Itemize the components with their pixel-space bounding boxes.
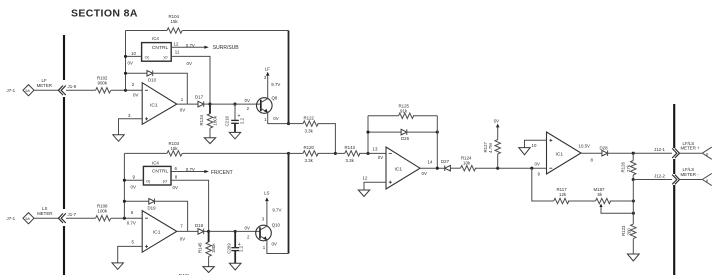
wire IC4 pin 11 drop to output node — [171, 49, 210, 104]
Q10 collector to LS net arrow — [262, 191, 282, 227]
svg-text:9.7V: 9.7V — [272, 207, 281, 212]
svg-text:O(: O( — [145, 56, 150, 60]
IC U IC4 (top half) — [142, 36, 172, 61]
wire node to C209 node — [209, 230, 236, 232]
svg-text:R123: R123 — [621, 225, 626, 236]
potentiometer M187 — [594, 187, 634, 213]
wire: riser from Q10 emitter — [288, 153, 290, 253]
capacitor C216 — [225, 104, 245, 139]
node R126 top — [632, 152, 635, 155]
connector J12-2 chevron — [654, 173, 680, 184]
svg-text:R120: R120 — [304, 145, 315, 150]
resistor R134 to ground — [199, 104, 217, 144]
output pin 8 wire — [579, 144, 602, 163]
diode D17 — [195, 94, 210, 107]
resistor R126 vertical — [621, 153, 636, 179]
svg-text:D19: D19 — [148, 206, 157, 211]
pin 10 wire + ground — [519, 140, 547, 155]
svg-text:J7-1: J7-1 — [7, 88, 16, 93]
wire chevron to R108 — [66, 217, 96, 219]
svg-text:0V: 0V — [131, 185, 136, 190]
svg-text:14: 14 — [428, 160, 433, 165]
svg-text:10: 10 — [532, 143, 537, 148]
wire diamond to chevron (bottom input) — [34, 217, 59, 219]
diode D18 — [195, 223, 209, 234]
node: pin6 feedback junction — [123, 217, 126, 220]
svg-text:0V: 0V — [272, 242, 277, 247]
capacitor C209 — [227, 231, 244, 270]
node output/R145 — [207, 230, 210, 233]
svg-text:3.3k: 3.3k — [305, 128, 314, 133]
wire IC4 pin 12 to SURR/SUB arrow — [171, 42, 239, 51]
svg-text:0V: 0V — [180, 236, 185, 241]
svg-text:J1-7: J1-7 — [68, 212, 77, 217]
svg-text:LS: LS — [264, 191, 269, 196]
svg-text:27k: 27k — [626, 164, 631, 172]
wire R108 to IC1 pin6 — [111, 217, 142, 219]
svg-text:O(: O( — [146, 179, 151, 183]
svg-text:)O: )O — [163, 179, 167, 183]
wire: riser to Q8 emitter node — [288, 31, 290, 124]
wire: feedback top horizontal — [126, 30, 168, 32]
node pin13 — [366, 152, 369, 155]
Q8 collector to LF net arrow — [264, 67, 281, 99]
svg-text:D27: D27 — [441, 159, 450, 164]
svg-text:IC1: IC1 — [150, 102, 158, 108]
svg-text:5k: 5k — [598, 192, 603, 197]
svg-text:LF: LF — [265, 67, 270, 72]
svg-text:12: 12 — [363, 176, 368, 181]
transistor Q10 — [256, 222, 281, 240]
connector J7-1 (top) — [7, 85, 35, 96]
svg-text:METER -: METER - — [681, 172, 700, 177]
node R127 junction — [496, 167, 499, 170]
diode D28 — [600, 145, 673, 156]
net label LF/LS METER - — [681, 167, 700, 177]
wire IC4 pin 8 drop to output node — [171, 174, 209, 231]
wire pin9 node down to R117 — [532, 168, 554, 201]
svg-text:0V: 0V — [378, 155, 383, 160]
wire: R103 to riser junction — [182, 152, 288, 154]
wire vertical down to R123 — [632, 180, 634, 225]
svg-text:10: 10 — [131, 51, 136, 56]
svg-text:SECTION 8A: SECTION 8A — [71, 8, 138, 20]
svg-text:10.5V: 10.5V — [579, 144, 591, 149]
svg-text:J7-1: J7-1 — [7, 216, 16, 221]
svg-text:0V: 0V — [128, 60, 133, 65]
svg-text:R122: R122 — [304, 115, 315, 120]
node emitter/riser junction — [287, 122, 290, 125]
svg-text:200: 200 — [626, 228, 631, 236]
resistor R127 to 5V — [483, 119, 501, 169]
op-amp IC1 unit4 (middle) — [386, 147, 420, 189]
resistor R120 — [289, 145, 336, 163]
wire feedback right vertical — [436, 116, 438, 168]
connector J7-1 (bottom) — [7, 213, 35, 224]
pin 12 wire + ground — [358, 176, 386, 197]
svg-text:11: 11 — [175, 49, 180, 54]
diode D27 (points left) — [441, 159, 461, 171]
svg-text:3.3k: 3.3k — [305, 158, 314, 163]
svg-text:IC1: IC1 — [556, 152, 564, 158]
svg-text:0V: 0V — [133, 93, 138, 98]
wire pin13 node up to feedback — [367, 116, 369, 154]
svg-text:0V: 0V — [245, 98, 250, 103]
svg-text:J1-8: J1-8 — [68, 84, 77, 89]
svg-text:J12-2: J12-2 — [654, 173, 666, 178]
Q10 emitter wire — [263, 240, 289, 254]
svg-text:C216: C216 — [225, 115, 230, 126]
node R122/R120 merge — [334, 152, 337, 155]
wire: feedback horizontal (bottom) — [124, 152, 167, 154]
IC U IC4 (bottom half) — [143, 160, 171, 185]
op-amp IC1 unit2 (bottom) — [142, 211, 177, 253]
svg-text:0.7V: 0.7V — [186, 43, 195, 48]
node R126 bottom / J12-2 — [632, 178, 635, 181]
svg-text:4.7M: 4.7M — [488, 143, 493, 153]
svg-text:0V: 0V — [245, 226, 250, 231]
resistor R123 to ground — [621, 224, 639, 261]
net label LS METER — [37, 206, 52, 216]
node: pin2 feedback junction — [124, 89, 127, 92]
svg-text:SURR/SUB: SURR/SUB — [213, 45, 240, 51]
resistor R103 — [167, 141, 182, 156]
svg-text:Q8: Q8 — [272, 96, 278, 101]
svg-text:IC4: IC4 — [152, 160, 159, 165]
svg-text:900k: 900k — [98, 81, 108, 86]
op-amp IC1 unit1 (top) — [142, 83, 177, 125]
pin 3 wire + ground — [113, 113, 142, 141]
svg-text:180k: 180k — [211, 243, 216, 253]
svg-text:15k: 15k — [171, 146, 179, 151]
svg-text:180k: 180k — [212, 115, 217, 125]
resistor R102 — [96, 76, 111, 93]
connector J1-7 chevron — [58, 212, 76, 223]
svg-text:D26: D26 — [401, 136, 410, 141]
resistor R108 — [96, 204, 111, 221]
transistor Q8 — [257, 96, 278, 114]
svg-text:2.2: 2.2 — [238, 245, 243, 252]
connector J1-8 chevron — [58, 84, 76, 95]
wire IC4 pin 10 (left) — [124, 51, 142, 66]
svg-text:R134: R134 — [199, 114, 204, 125]
svg-text:)O: )O — [163, 56, 167, 60]
wire chevron to R102 — [66, 89, 96, 91]
net label LF/LS METER + — [681, 141, 701, 151]
wire R102 to IC1 pin2 — [111, 89, 142, 91]
svg-text:C209: C209 — [227, 243, 232, 254]
connector J12-1 chevron — [654, 147, 680, 158]
svg-text:D10: D10 — [148, 78, 157, 83]
svg-text:5A: 5A — [25, 217, 30, 221]
output pin 7 wire — [177, 224, 198, 242]
svg-text:0V: 0V — [180, 108, 185, 113]
net label LF METER — [37, 78, 52, 88]
node M187 right — [632, 199, 635, 202]
resistor R125 feedback — [368, 104, 437, 119]
svg-text:Q10: Q10 — [272, 222, 281, 227]
wire chevron to off-page (bottom) — [680, 179, 702, 181]
svg-text:D28: D28 — [600, 145, 609, 150]
svg-text:R143: R143 — [345, 145, 356, 150]
diode D19 clamp — [123, 199, 188, 232]
svg-text:2.2: 2.2 — [239, 117, 244, 124]
diode D10 clamp — [124, 71, 187, 105]
svg-text:D18: D18 — [195, 223, 204, 228]
wire diamond to chevron (top input) — [34, 89, 59, 91]
output pin 14 wire — [420, 160, 445, 176]
wire to Q10 base — [235, 230, 260, 232]
Q8 emitter wire — [264, 112, 288, 123]
svg-text:0V: 0V — [187, 61, 192, 66]
svg-text:91k: 91k — [400, 109, 408, 114]
svg-text:0V: 0V — [173, 185, 178, 190]
svg-text:D17: D17 — [195, 94, 204, 99]
svg-text:METER: METER — [37, 83, 52, 88]
svg-text:METER +: METER + — [681, 146, 701, 151]
svg-text:0V: 0V — [535, 161, 540, 166]
board edge line left — [63, 35, 65, 275]
svg-text:9.7V: 9.7V — [271, 82, 280, 87]
node: riser/R120 junction — [287, 152, 290, 155]
svg-text:0.7V: 0.7V — [127, 221, 136, 226]
svg-text:CNTRL: CNTRL — [152, 169, 169, 175]
resistor R143 — [335, 145, 386, 163]
node pin9 feedback junction — [530, 167, 533, 170]
resistor R124 — [461, 156, 547, 171]
svg-text:0V: 0V — [422, 171, 427, 176]
op-amp IC1 unit3 (right) — [547, 132, 582, 174]
resistor R117 — [554, 187, 596, 204]
svg-text:5A: 5A — [25, 89, 30, 93]
svg-text:J12-1: J12-1 — [654, 147, 666, 152]
svg-text:R145: R145 — [198, 242, 203, 253]
svg-text:5V: 5V — [494, 119, 499, 124]
node wiper — [632, 212, 635, 215]
svg-text:15k: 15k — [171, 19, 179, 24]
svg-text:8: 8 — [706, 179, 708, 183]
wire chevron to off-page (top) — [680, 152, 702, 154]
pin 5 wire + ground — [112, 240, 142, 270]
svg-text:CNTRL: CNTRL — [152, 45, 169, 51]
svg-text:12: 12 — [174, 42, 179, 47]
svg-text:FR/CENT: FR/CENT — [211, 170, 233, 176]
svg-text:R126: R126 — [621, 161, 626, 172]
svg-text:100k: 100k — [98, 208, 108, 213]
board edge line right — [673, 104, 675, 275]
wire to Q8 base — [235, 103, 261, 105]
wire: feedback top to riser — [182, 30, 288, 32]
wire IC4 pin 9 (left) — [123, 175, 144, 190]
svg-text:0.7V: 0.7V — [186, 167, 195, 172]
resistor R104 — [167, 14, 182, 33]
svg-text:12k: 12k — [559, 192, 567, 197]
svg-text:8: 8 — [706, 153, 708, 157]
wire: feedback left vertical (top) — [125, 31, 127, 91]
resistor R145 to ground — [198, 231, 216, 272]
wire: feedback left vertical (bottom) — [123, 153, 125, 218]
svg-text:IC4: IC4 — [152, 36, 159, 41]
output pin 1 wire — [177, 97, 198, 113]
resistor R122 — [289, 115, 336, 153]
node output/R134 — [208, 103, 211, 106]
svg-text:13: 13 — [373, 147, 378, 152]
svg-text:0V: 0V — [273, 116, 278, 121]
wire IC4 pin 6 to FR/CENT arrow — [171, 166, 233, 176]
svg-text:3.3k: 3.3k — [346, 158, 355, 163]
off-page connector (top) — [702, 147, 712, 159]
wire node to C216 node — [210, 103, 235, 105]
svg-text:IC1: IC1 — [153, 230, 161, 236]
svg-text:METER: METER — [37, 211, 52, 216]
diode D26 feedback — [366, 129, 438, 141]
off-page connector (bottom) — [702, 173, 712, 185]
wire J12-2 row — [633, 179, 672, 181]
svg-text:IC1: IC1 — [395, 167, 403, 173]
